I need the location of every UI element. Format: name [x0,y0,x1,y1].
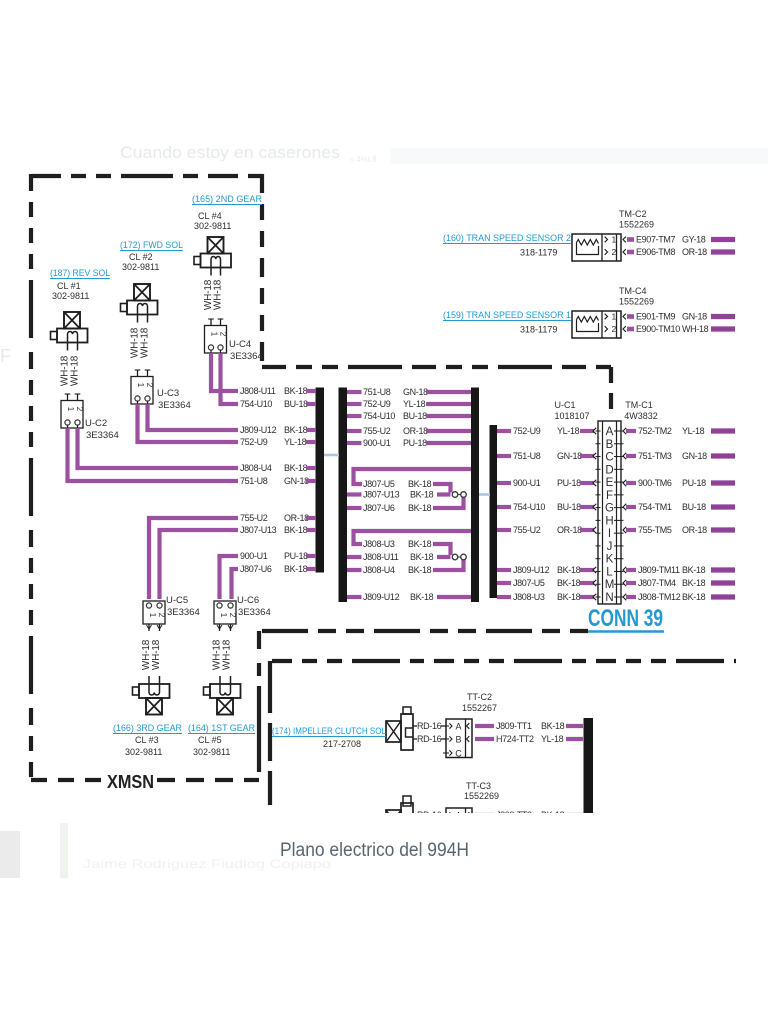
svg-text:BU-18: BU-18 [284,399,308,409]
solenoid valve 2ND GEAR left tab [194,257,201,265]
wire row 751-U8 GN-18 middle column [347,390,362,394]
wire row J809-U12 BK-18 middle [347,595,362,599]
svg-text:BK-18: BK-18 [682,578,706,588]
svg-text:BK-18: BK-18 [557,578,581,588]
solenoid valve REV SOL coil box [64,312,80,329]
impeller solenoid coil box [386,721,401,742]
svg-text:U-C3: U-C3 [157,388,179,399]
svg-text:318-1179: 318-1179 [520,325,557,335]
link bar1-bar2 [324,454,339,457]
svg-text:D: D [605,464,613,476]
svg-text:YL-18: YL-18 [682,426,705,436]
svg-text:752-U9: 752-U9 [513,426,541,436]
svg-text:302-9811: 302-9811 [194,221,231,231]
svg-text:J808-U4: J808-U4 [363,565,395,575]
XMSN box bottom border right part [157,778,259,782]
speed sensor TM-C2 coil [577,240,599,246]
svg-text:CL #5: CL #5 [198,735,222,745]
solenoid valve REV SOL left tab [51,332,58,340]
svg-text:302-9811: 302-9811 [193,747,230,757]
wire H724-TT2 YL-18 [475,737,494,741]
svg-text:1018107: 1018107 [554,411,589,421]
svg-text:H: H [605,515,613,527]
solenoid 1ST GEAR coil box [217,698,233,715]
partial impeller clutch solenoid 2 clipped at page cut [386,796,583,847]
svg-text:752-U9: 752-U9 [240,437,268,447]
wire row 754-U10 BU-18 middle column [347,414,362,418]
wire row J809-U12 BK-18 into CONN39 [497,568,511,572]
solenoid valve 2ND GEAR winding [211,257,221,268]
wire RD-16 row A [413,814,417,816]
solenoid valve 3RD GEAR body [139,684,170,698]
svg-text:BK-18: BK-18 [541,721,565,731]
connector U-C6 bottom pins [219,624,221,631]
TT box left border [268,661,272,813]
svg-text:s 4%t.fl: s 4%t.fl [350,155,376,164]
svg-text:J: J [607,541,613,553]
svg-text:751-U8: 751-U8 [363,387,391,397]
connector U-C4 top pins [210,319,212,326]
svg-text:B: B [606,439,614,451]
svg-text:BK-18: BK-18 [284,386,308,396]
svg-text:OR-18: OR-18 [682,525,707,535]
svg-text:3E3364: 3E3364 [86,430,119,441]
svg-text:N: N [605,592,613,604]
connector TT pin letters [443,814,449,816]
svg-text:BK-18: BK-18 [284,525,308,535]
wire J807 group feeder from bar3 [354,469,472,484]
XMSN box right border upper [260,174,264,366]
svg-text:(159) TRAN SPEED SENSOR 1: (159) TRAN SPEED SENSOR 1 [443,310,571,321]
svg-text:302-9811: 302-9811 [52,291,89,301]
svg-text:CL #4: CL #4 [198,211,222,221]
svg-text:WH-18: WH-18 [213,279,224,310]
svg-text:C: C [605,452,613,464]
wire row 754-U10 BU-18 into CONN39 [497,505,511,509]
svg-text:Cuando estoy en caserones: Cuando estoy en caserones [120,143,340,162]
speed sensor TM-C4 coil [577,317,599,323]
svg-text:BK-18: BK-18 [410,490,434,500]
XMSN box top border [31,174,265,178]
svg-text:J809-U12: J809-U12 [513,565,550,575]
svg-text:3E3364: 3E3364 [238,607,271,618]
svg-text:(165) 2ND GEAR: (165) 2ND GEAR [192,194,262,205]
splice joints J808 [458,556,462,558]
harness bar 2 [339,388,348,603]
svg-text:K: K [606,554,614,566]
svg-text:1552269: 1552269 [464,791,499,801]
svg-text:BK-18: BK-18 [682,565,706,575]
svg-text:1552267: 1552267 [462,703,497,713]
wire row J808-U11 BK-18 [347,555,362,559]
TT box top border [272,659,736,663]
connector U-C4 sockets [208,345,213,350]
sensor TM-C2 pins [605,237,608,243]
svg-text:WH-18: WH-18 [682,324,709,334]
svg-text:PU-18: PU-18 [557,478,581,488]
svg-text:BU-18: BU-18 [682,502,706,512]
svg-text:1: 1 [66,407,75,412]
svg-text:J808-U4: J808-U4 [240,463,272,473]
svg-text:BK-18: BK-18 [284,425,308,435]
svg-text:900-U1: 900-U1 [240,551,268,561]
svg-text:WH-18: WH-18 [222,639,233,670]
svg-text:J807-U5: J807-U5 [363,479,395,489]
connector U-C3 shell [131,377,153,405]
solenoid valve REV SOL body [57,329,88,343]
wire row 900-U1 PU-18 into CONN39 [497,481,511,485]
svg-text:751-TM3: 751-TM3 [638,451,672,461]
svg-text:RD-16: RD-16 [417,721,442,731]
svg-text:OR-18: OR-18 [403,426,428,436]
wire RD-16 row B [413,827,417,829]
harness bar 5 [584,718,594,813]
wire 900-U1 to U-C6 pin1 [220,556,239,599]
svg-text:1: 1 [136,383,145,388]
solenoid valve FWD SOL winding [138,304,148,315]
svg-text:PU-18: PU-18 [284,551,308,561]
wire row 751-U8 GN-18 into CONN39 [497,454,511,458]
svg-text:BU-18: BU-18 [557,502,581,512]
svg-text:A: A [455,721,461,731]
wire row 755-U2 OR-18 middle column [347,429,362,433]
svg-text:E906-TM8: E906-TM8 [636,247,676,257]
harness box top border [262,365,611,369]
svg-text:CONN 39: CONN 39 [588,605,663,632]
svg-text:BK-18: BK-18 [557,592,581,602]
svg-text:TT-C2: TT-C2 [467,692,492,702]
impeller solenoid top tab [403,707,411,714]
svg-text:YL-18: YL-18 [557,426,580,436]
wire E907-TM7 GY-18 [623,237,626,243]
svg-text:GN-18: GN-18 [284,476,309,486]
svg-text:3E3364: 3E3364 [158,400,191,411]
svg-text:YL-18: YL-18 [403,399,426,409]
solenoid valve 3RD GEAR left tab [133,687,140,695]
svg-text:(187) REV SOL: (187) REV SOL [50,268,110,279]
wire J807-U13 to U-C5 pin2 [160,530,239,599]
connector TT output arrows [467,723,470,729]
svg-text:(160) TRAN SPEED SENSOR 2: (160) TRAN SPEED SENSOR 2 [443,233,571,244]
solenoid 2ND GEAR lead wires [210,268,212,276]
impeller solenoid body [401,803,413,839]
connector TT output arrows [467,812,470,818]
connector U-C2 shell [61,401,83,429]
svg-text:1: 1 [210,332,219,337]
harness box bottom border [262,629,597,633]
svg-text:BK-18: BK-18 [408,565,432,575]
wire row 755-TM5 OR-18 out of CONN39 [623,527,626,533]
svg-text:F: F [0,346,11,366]
svg-text:J808-U3: J808-U3 [363,539,395,549]
svg-text:2: 2 [228,613,237,618]
svg-text:E900-TM10: E900-TM10 [636,324,680,334]
svg-text:PU-18: PU-18 [682,478,706,488]
harness box right border [609,367,613,412]
connector U-C5 sockets [146,603,151,608]
wire row 900-TM6 PU-18 out of CONN39 [623,480,626,486]
wire E901-TM9 GN-18 [623,314,626,320]
svg-text:1: 1 [148,613,157,618]
svg-text:GY-18: GY-18 [682,235,706,245]
impeller solenoid winding [406,817,414,826]
svg-text:900-TM6: 900-TM6 [638,478,672,488]
wire E900-TM10 WH-18 [623,326,626,332]
svg-text:J809-U12: J809-U12 [363,592,400,602]
svg-text:CL #2: CL #2 [129,252,153,262]
solenoid valve FWD SOL coil box [134,284,150,301]
svg-text:BK-18: BK-18 [557,565,581,575]
svg-text:H724-TT2: H724-TT2 [496,734,534,744]
solenoid REV SOL lead wires [67,343,69,351]
svg-text:WH-18: WH-18 [140,327,151,358]
wire RD-16 row A [413,725,417,727]
svg-text:U-C4: U-C4 [229,339,251,350]
svg-text:752-U9: 752-U9 [363,399,391,409]
wire J809-TT1 BK-18 [475,724,494,728]
connector U-C5 shell [143,601,165,624]
svg-text:J808-U11: J808-U11 [240,386,276,396]
connector U-C2 sockets [65,420,70,425]
svg-text:900-U1: 900-U1 [513,478,541,488]
solenoid valve 3RD GEAR winding [149,684,160,695]
svg-text:TM-C4: TM-C4 [619,286,647,296]
svg-text:BK-18: BK-18 [284,564,308,574]
wire row 755-U2 OR-18 into CONN39 [497,528,511,532]
svg-text:U-C5: U-C5 [166,595,188,606]
svg-text:GN-18: GN-18 [557,451,582,461]
svg-text:M: M [605,579,615,591]
svg-text:2: 2 [612,247,617,257]
svg-text:J808-TM12: J808-TM12 [638,592,681,602]
svg-text:GN-18: GN-18 [682,312,707,322]
wire row J808-U4 BK-18 [347,568,362,572]
impeller solenoid coil box [386,810,401,831]
svg-text:TM-C1: TM-C1 [625,400,653,410]
svg-text:J808-U3: J808-U3 [513,592,545,602]
svg-text:754-TM1: 754-TM1 [638,502,672,512]
svg-text:755-U2: 755-U2 [240,513,268,523]
svg-text:OR-18: OR-18 [557,525,582,535]
svg-text:751-U8: 751-U8 [240,476,268,486]
solenoid FWD SOL lead wires [137,315,139,323]
svg-text:GN-18: GN-18 [682,451,707,461]
svg-text:U-C2: U-C2 [85,418,107,429]
svg-text:PU-18: PU-18 [403,438,427,448]
svg-text:L: L [606,566,613,578]
wire U-C3 pin1 to 752-U9 [138,404,239,442]
svg-text:BK-18: BK-18 [682,592,706,602]
svg-text:U-C6: U-C6 [237,595,259,606]
svg-text:1: 1 [219,613,228,618]
speed sensor TM-C2 body [572,234,621,261]
svg-text:F: F [606,490,613,502]
svg-text:E901-TM9: E901-TM9 [636,312,676,322]
sensor TM-C4 pins [605,314,608,320]
svg-text:754-U10: 754-U10 [363,411,395,421]
svg-text:751-U8: 751-U8 [513,451,541,461]
svg-text:WH-18: WH-18 [151,639,162,670]
svg-text:TT-C3: TT-C3 [466,781,491,791]
link bar3-bar4 [479,493,490,496]
svg-text:BK-18: BK-18 [408,539,432,549]
wire 755-U2 to U-C5 pin1 [149,518,238,599]
svg-text:J807-U6: J807-U6 [240,564,272,574]
svg-text:BK-18: BK-18 [410,552,434,562]
svg-text:WH-18: WH-18 [70,355,81,386]
wire row J808-TM12 BK-18 out of CONN39 [623,594,626,600]
solenoid valve 2ND GEAR coil box [208,237,224,254]
svg-text:1: 1 [612,235,617,245]
svg-text:CL #3: CL #3 [135,735,159,745]
wire row J807-U6 BK-18 [347,506,362,510]
svg-text:I: I [608,528,611,540]
XMSN box bottom border left part [31,778,103,782]
solenoid valve FWD SOL left tab [121,304,128,312]
svg-text:BU-18: BU-18 [403,411,427,421]
svg-text:(164) 1ST GEAR: (164) 1ST GEAR [188,723,255,734]
svg-text:754-U10: 754-U10 [513,502,545,512]
connector CONN39 shell [598,421,621,604]
svg-text:302-9811: 302-9811 [125,747,162,757]
impeller solenoid body [401,714,413,750]
svg-text:752-TM2: 752-TM2 [638,426,672,436]
wire row 752-U9 YL-18 into CONN39 [497,429,511,433]
connector TT shell [446,719,472,758]
solenoid 3RD GEAR coil box [146,698,162,715]
wire row J807-U5 BK-18 into CONN39 [497,581,511,585]
wire row 900-U1 PU-18 middle column [347,441,362,445]
svg-text:217-2708: 217-2708 [323,739,361,749]
wire row 751-TM3 GN-18 out of CONN39 [623,453,626,459]
svg-text:BK-18: BK-18 [410,592,434,602]
svg-text:900-U1: 900-U1 [363,438,391,448]
svg-text:E: E [606,477,614,489]
svg-text:J809-TT1: J809-TT1 [496,721,532,731]
svg-text:YL-18: YL-18 [541,734,564,744]
svg-text:(174) IMPELLER CLUTCH SOL: (174) IMPELLER CLUTCH SOL [272,726,386,736]
faint watermark band top right [390,148,768,164]
wire U-C3 pin2 to J809-U12 [148,404,239,430]
wire row 754-TM1 BU-18 out of CONN39 [623,504,626,510]
wire row J807-TM4 BK-18 out of CONN39 [623,580,626,586]
connector U-C6 shell [214,601,236,624]
svg-text:J807-U6: J807-U6 [363,503,395,513]
solenoid valve 1ST GEAR winding [220,684,231,695]
solenoid valve 1ST GEAR body [210,684,241,698]
svg-text:3E3364: 3E3364 [230,351,263,362]
harness bar 3 [471,388,479,603]
connector U-C2 top pins [67,394,69,401]
svg-text:Jaime Rodriguez Fiudlog Copiap: Jaime Rodriguez Fiudlog Copiapo [83,857,331,871]
splice joints J807 [458,494,462,496]
svg-text:RD-16: RD-16 [417,734,442,744]
svg-text:4W3832: 4W3832 [624,411,658,421]
svg-text:J807-U5: J807-U5 [513,578,545,588]
svg-text:OR-18: OR-18 [682,247,707,257]
solenoid valve REV SOL winding [68,332,78,343]
svg-text:755-U2: 755-U2 [363,426,391,436]
svg-text:(172) FWD SOL: (172) FWD SOL [120,240,183,251]
wire RD-16 row B [413,738,417,740]
svg-text:755-TM5: 755-TM5 [638,525,672,535]
svg-text:2: 2 [145,383,154,388]
connector TT pin letters [443,725,449,727]
svg-text:OR-18: OR-18 [284,513,309,523]
connector U-C4 shell [205,326,227,354]
svg-text:J807-U13: J807-U13 [240,525,277,535]
svg-text:E907-TM7: E907-TM7 [636,235,676,245]
impeller solenoid top tab [403,796,411,806]
svg-text:302-9811: 302-9811 [122,262,159,272]
speed sensor TM-C4 body [572,311,621,338]
svg-text:1: 1 [612,312,617,322]
svg-text:B: B [455,734,461,744]
connector U-C6 sockets [217,603,222,608]
svg-text:BK-18: BK-18 [408,503,432,513]
connector U-C3 sockets [135,396,140,401]
footer light green strip [60,823,68,878]
connector TT shell [446,808,472,847]
connector CONN39 pin ticks [596,430,601,432]
wire row J807-U13 BK-18 [347,492,362,496]
wire U-C4 pin2 to 754-U10 [221,353,239,404]
wire row 752-TM2 YL-18 out of CONN39 [623,428,626,434]
wire U-C2 pin2 to J808-U4 [78,428,239,468]
svg-text:J807-TM4: J807-TM4 [638,578,676,588]
wire J807-U6 to U-C6 pin2 [232,569,239,599]
svg-text:1552269: 1552269 [619,297,654,307]
svg-text:2: 2 [219,332,228,337]
svg-text:318-1179: 318-1179 [520,248,557,258]
solenoid 1ST GEAR lead wires [219,676,221,684]
svg-text:J808-U11: J808-U11 [363,552,399,562]
wire J808 group feeder from bar3 [354,531,472,544]
svg-text:GN-18: GN-18 [403,387,428,397]
svg-text:C: C [455,748,462,758]
wire U-C2 pin1 to 751-U8 [68,428,239,481]
XMSN box left border [29,174,33,781]
svg-text:A: A [606,426,614,438]
solenoid valve 2ND GEAR body [201,254,232,268]
solenoid valve FWD SOL body [127,301,158,315]
svg-text:755-U2: 755-U2 [513,525,541,535]
svg-text:2: 2 [75,407,84,412]
svg-text:BK-18: BK-18 [284,463,308,473]
svg-text:XMSN: XMSN [107,772,154,792]
wire row J809-TM11 BK-18 out of CONN39 [623,567,626,573]
connector U-C3 top pins [137,370,139,377]
harness bar 1 [316,388,325,573]
footer left gray strip [0,831,20,878]
svg-text:TM-C2: TM-C2 [619,209,647,219]
svg-text:G: G [605,503,614,515]
svg-text:3E3364: 3E3364 [167,607,200,618]
wire U-C4 pin1 to J808-U11 [211,353,238,391]
svg-text:J807-U13: J807-U13 [363,490,400,500]
svg-text:BK-18: BK-18 [408,479,432,489]
connector U-C5 bottom pins [148,624,150,631]
svg-text:754-U10: 754-U10 [240,399,272,409]
wire row 752-U9 YL-18 middle column [347,402,362,406]
solenoid 3RD GEAR lead wires [148,676,150,684]
wire row J808-U3 BK-18 into CONN39 [497,595,511,599]
svg-text:1552269: 1552269 [619,220,654,230]
harness bar 4 [490,425,498,598]
svg-text:YL-18: YL-18 [284,437,307,447]
XMSN box right border lower [257,631,261,780]
svg-text:(166) 3RD GEAR: (166) 3RD GEAR [113,723,182,734]
